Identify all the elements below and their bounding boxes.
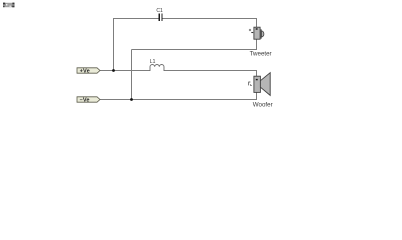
wire L1 to woofer top lead (164, 71, 257, 77)
svg-text:Tweeter: Tweeter (250, 50, 272, 57)
svg-text:C1: C1 (156, 8, 163, 14)
speaker tweeter (249, 27, 264, 39)
junction node A (+Ve / riser / L1) (112, 69, 115, 72)
capacitor C1 (159, 13, 163, 21)
wire +Ve to junction A (100, 70, 114, 72)
net label -Ve (77, 97, 100, 104)
wire top-right from C1 right plate to tweeter top lead (162, 19, 257, 29)
svg-text:L1: L1 (150, 59, 156, 65)
watermark logo (3, 3, 15, 8)
wire top-left from vertical riser corner to C1 left plate (114, 19, 160, 72)
inductor L1 (150, 65, 164, 72)
wire tweeter bottom lead to vertical return (132, 39, 257, 49)
svg-text:Woofer: Woofer (253, 101, 273, 108)
speaker woofer (249, 73, 271, 96)
wire vertical return tweeter (-) to node B (131, 50, 133, 101)
wire junction A to L1 (114, 70, 151, 72)
wire -Ve to node B (100, 99, 132, 101)
wire node B to woofer bottom lead (132, 92, 257, 100)
net label +Ve (77, 68, 100, 75)
junction node B (-Ve / tweeter return / woofer return) (130, 98, 133, 101)
svg-text:+Ve: +Ve (80, 69, 90, 75)
svg-text:–Ve: –Ve (80, 98, 90, 104)
